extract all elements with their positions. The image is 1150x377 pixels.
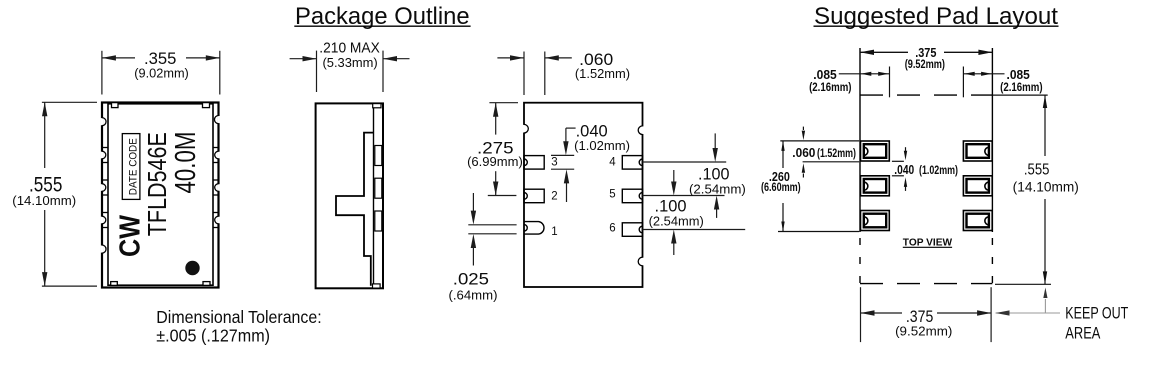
date code box: [122, 134, 140, 200]
dimension .060 pad height left: ext lines: [780, 141, 859, 162]
svg-text:(1.02mm): (1.02mm): [574, 139, 630, 153]
dimension .210 MAX: arrows outside: [290, 56, 410, 61]
side view castellation pad bottom: [375, 211, 382, 231]
svg-text:6: 6: [609, 223, 615, 235]
keep out area dashed right edge lower: [991, 238, 993, 284]
right pad row 3: [963, 211, 992, 231]
svg-text:DATE CODE: DATE CODE: [127, 138, 139, 195]
svg-text:KEEP OUT: KEEP OUT: [1065, 305, 1128, 323]
front view lid corner notch bottom-left: [111, 282, 118, 286]
left pad row 1: [861, 141, 890, 161]
svg-text:(2.54mm): (2.54mm): [689, 182, 746, 197]
front view left-edge index notch bottom: [101, 246, 104, 253]
top view label: [903, 237, 952, 249]
dimension .275: dimension line and arrows: [493, 103, 498, 196]
svg-text:(6.60mm): (6.60mm): [761, 182, 801, 194]
svg-text:.555: .555: [1024, 162, 1050, 179]
svg-text:2: 2: [551, 191, 557, 203]
dimension .060 pad height left: arrows: [802, 127, 805, 178]
svg-text:40.0M: 40.0M: [169, 132, 201, 194]
dimension .025: arrows outside: [471, 193, 476, 266]
pad column outer edge line right: [991, 48, 993, 232]
side view top corner notch: [373, 104, 381, 108]
svg-text:.355: .355: [144, 49, 176, 68]
side view bottom corner notch: [373, 284, 381, 288]
svg-text:.210 MAX: .210 MAX: [319, 39, 380, 56]
pad pin 4: [622, 156, 642, 170]
dimension .060 pad depth: extension lines: [524, 52, 545, 96]
keep out area dashed left edge lower: [859, 238, 861, 284]
dimension .375 bottom: ext lines: [861, 287, 992, 342]
title: Package Outline: [294, 3, 470, 30]
front view right-edge index notch top: [217, 116, 220, 123]
pad pin 6: [622, 223, 642, 237]
svg-text:(5.33mm): (5.33mm): [323, 56, 378, 70]
keep out area dashed rectangle top: [860, 94, 992, 96]
svg-text:1: 1: [551, 226, 557, 238]
svg-text:5: 5: [609, 189, 615, 201]
side view castellation pad middle: [375, 178, 382, 198]
svg-text:.060: .060: [792, 146, 815, 160]
dimension .260: dimension line and arrows: [781, 141, 784, 232]
dimension .060 pad depth: arrows outside: [497, 55, 571, 60]
bottom view body outline: [524, 103, 643, 287]
svg-text:(1.52mm): (1.52mm): [817, 146, 856, 160]
left pad row 3: [861, 211, 890, 231]
front view left-edge index notch top: [101, 118, 104, 125]
pad pin 2: [524, 189, 544, 203]
side view internal step profile: [336, 133, 374, 286]
svg-text:(14.10mm): (14.10mm): [1013, 179, 1079, 194]
left pad row 2: [861, 176, 890, 196]
title: Suggested Pad Layout: [814, 3, 1059, 30]
svg-text:Dimensional Tolerance:: Dimensional Tolerance:: [156, 307, 321, 327]
front view lid inner outline: [108, 104, 213, 285]
dimension .025: extension lines: [468, 225, 516, 234]
svg-text:(1.02mm): (1.02mm): [919, 163, 958, 177]
svg-text:CW: CW: [114, 215, 146, 257]
keep out area label: [1065, 305, 1128, 343]
dimension .040 row gap: arrows: [904, 147, 907, 191]
pad column outer edge line left: [859, 48, 861, 232]
pad pin 1 stadium: [524, 222, 544, 235]
svg-text:(2.16mm): (2.16mm): [809, 80, 851, 94]
front view right-edge castellation pin3: [213, 148, 220, 163]
svg-text:±.005 (.127mm): ±.005 (.127mm): [156, 325, 270, 345]
front view left-edge castellation pin4: [101, 213, 108, 228]
svg-text:(.64mm): (.64mm): [449, 289, 498, 303]
front view lid corner notch top-left: [112, 103, 119, 108]
dimension .260: bottom ext line: [778, 231, 859, 233]
front view right-edge castellation pin2: [213, 180, 220, 195]
svg-text:(1.52mm): (1.52mm): [575, 67, 630, 81]
dimension .355 width: extension lines: [102, 51, 220, 95]
bottom view right-edge index notch bottom: [641, 258, 643, 266]
front view lid corner notch bottom-right: [203, 282, 210, 286]
svg-text:(9.52mm): (9.52mm): [895, 324, 952, 339]
bottom view right-edge index notch top: [641, 126, 643, 134]
dimension .210 MAX: extension lines: [317, 51, 384, 92]
pin 1 index dot: [185, 261, 199, 275]
svg-text:4: 4: [609, 157, 616, 169]
svg-text:(2.16mm): (2.16mm): [1000, 80, 1043, 94]
dimension .040 row gap: ext lines: [892, 161, 904, 176]
side view castellation pad top: [375, 146, 382, 166]
dimension .100 pitch rows 5-6: arrows: [671, 170, 676, 255]
front view right-edge castellation pin1: [213, 213, 220, 228]
right pad row 2: [963, 176, 992, 196]
dimension .555 right: top ext line: [992, 94, 1047, 96]
svg-text:(6.99mm): (6.99mm): [467, 155, 523, 169]
front view left-edge castellation pin5: [101, 180, 108, 195]
svg-text:(14.10mm): (14.10mm): [12, 193, 76, 208]
dimension .100 pitch rows: row lines: [643, 162, 746, 230]
dimension .085 left: ext line and arrows: [839, 67, 890, 98]
pad pin 3: [524, 156, 544, 170]
front view left-edge castellation pin6: [101, 148, 108, 163]
keep out area dashed rectangle bottom: [860, 283, 992, 285]
dimension .100 pitch rows 4-5: arrows: [713, 133, 720, 218]
keep out area leader: [996, 288, 1061, 316]
dimension .375 top: dimension line and arrows: [860, 50, 992, 55]
dimension .275: extension lines: [488, 103, 518, 196]
dimension .040 pad height: leader and arrows: [551, 128, 576, 202]
dimension .555 height: extension lines: [42, 102, 97, 286]
svg-text:AREA: AREA: [1065, 325, 1100, 343]
svg-text:.040: .040: [576, 122, 608, 141]
svg-text:(9.02mm): (9.02mm): [134, 66, 189, 80]
dimension .555 height: dimension line and arrows: [42, 102, 47, 286]
dimension .555 right: dimension line and arrows: [1043, 95, 1047, 284]
dimension .375 bottom: dimension line and arrows: [861, 310, 992, 315]
pad pin 5: [622, 189, 642, 203]
dimensional tolerance note: [156, 307, 321, 345]
side view lid seam line: [373, 103, 375, 288]
svg-text:(9.52mm): (9.52mm): [905, 57, 945, 71]
dimension .355 width: dimension line and arrows: [102, 55, 220, 60]
dimension .085 right: ext line and arrows: [963, 67, 1004, 98]
svg-text:.040: .040: [894, 163, 914, 177]
front view lid corner notch top-right: [203, 103, 210, 108]
front view package body outline: [102, 103, 219, 288]
svg-text:3: 3: [551, 157, 557, 169]
dimension .555 right: bottom ext line: [995, 283, 1051, 285]
svg-text:(2.54mm): (2.54mm): [649, 214, 704, 229]
side view body outline: [316, 103, 383, 288]
bottom view left-edge index notch: [523, 125, 525, 133]
svg-text:.025: .025: [453, 269, 489, 288]
right pad row 1: [963, 141, 992, 161]
